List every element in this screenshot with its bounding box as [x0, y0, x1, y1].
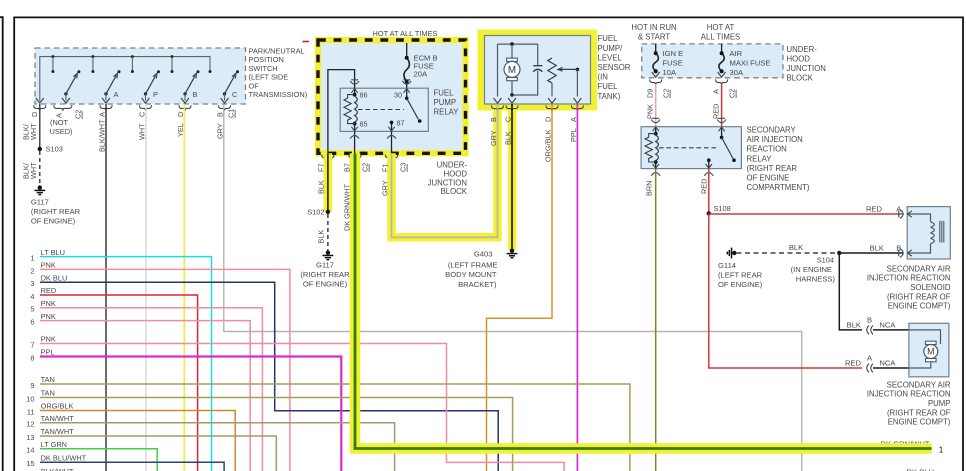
svg-text:FUEL: FUEL [598, 82, 619, 91]
svg-text:AIR: AIR [730, 49, 743, 58]
svg-text:86: 86 [360, 91, 368, 100]
fuel pump relay box [340, 88, 428, 131]
svg-text:UNDER-: UNDER- [787, 45, 818, 54]
svg-text:10A: 10A [663, 68, 677, 77]
wire BLK C to G403 [511, 104, 513, 251]
svg-text:SECONDARY AIR: SECONDARY AIR [887, 380, 951, 389]
fuel pump motor [511, 44, 513, 59]
svg-text:9: 9 [30, 381, 34, 390]
svg-text:TAN: TAN [41, 375, 55, 384]
svg-text:BRN: BRN [645, 181, 654, 196]
pump motor [909, 330, 941, 344]
svg-text:SECONDARY: SECONDARY [747, 126, 797, 135]
wire GRY F1 loop [392, 112, 498, 237]
svg-text:LEVEL: LEVEL [598, 53, 623, 62]
svg-text:D: D [544, 117, 553, 122]
wire 12 TAN/WHT [40, 423, 395, 471]
svg-text:HARNESS): HARNESS) [796, 275, 836, 284]
svg-text:SENSOR: SENSOR [598, 63, 631, 72]
wire DK GRN/WHT relay 85 to connector 1 [355, 153, 932, 448]
svg-text:A: A [114, 90, 119, 99]
wire 8 PPL [40, 357, 341, 471]
svg-text:ENGINE COMPT): ENGINE COMPT) [888, 418, 951, 427]
svg-text:G117: G117 [31, 198, 49, 207]
relay coil 86/85 [353, 93, 357, 97]
svg-text:1: 1 [939, 444, 944, 454]
small red tick [303, 41, 310, 43]
svg-text:UNDER-: UNDER- [437, 161, 468, 170]
pnp fixed contact x=92.9 [91, 55, 94, 58]
wire BLK dashed G114 to S104 [737, 252, 840, 254]
svg-text:RED: RED [845, 359, 862, 368]
svg-text:RED: RED [41, 286, 57, 295]
pnp fixed contact x=172.0 [171, 55, 174, 58]
svg-text:WHT: WHT [138, 123, 147, 140]
pnp switch arm 5 [223, 92, 226, 95]
capacitor [537, 44, 539, 65]
wire 11 ORG/BLK [40, 411, 235, 471]
svg-text:HOOD: HOOD [787, 54, 811, 63]
svg-text:LT GRN: LT GRN [41, 440, 67, 449]
wire 13 TAN/WHT [40, 436, 276, 471]
svg-text:A: A [98, 112, 107, 117]
yellow highlight F1 GRY loop [392, 107, 498, 237]
wire ORG/BLK D [487, 104, 553, 471]
svg-text:(RIGHT REAR OF: (RIGHT REAR OF [887, 292, 951, 301]
svg-text:M: M [508, 65, 516, 76]
pnp terminal D arrow [36, 98, 44, 103]
pnp switch arm 4 [183, 92, 186, 95]
air relay coil [655, 127, 657, 134]
svg-text:YEL: YEL [176, 123, 185, 137]
yellow highlight DK GRN/WHT path [355, 153, 932, 448]
svg-text:87: 87 [397, 118, 405, 127]
svg-text:(RIGHT REAR: (RIGHT REAR [300, 270, 350, 279]
ground G117 left [38, 185, 42, 189]
underhood junction block hazard box [318, 40, 466, 153]
svg-text:(IN ENGINE: (IN ENGINE [791, 265, 832, 274]
svg-text:30A: 30A [730, 68, 744, 77]
wire 1 LT BLU [40, 257, 212, 471]
AIR MAXI fuse 30A [721, 44, 723, 53]
wire 10 TAN [40, 398, 513, 471]
svg-text:C1: C1 [227, 109, 236, 118]
svg-text:G114: G114 [718, 261, 736, 270]
wire BLK S104 to solenoid B [839, 252, 903, 254]
svg-text:(IN: (IN [598, 73, 608, 82]
secondary air injection reaction relay box [641, 127, 741, 169]
svg-text:SECONDARY AIR: SECONDARY AIR [887, 264, 951, 273]
svg-text:POSITION: POSITION [249, 55, 284, 64]
yellow highlight fuel pump BLK to G403 [508, 107, 517, 250]
svg-text:D: D [176, 112, 185, 117]
secondary air injection reaction pump box [909, 323, 949, 377]
svg-text:D: D [30, 112, 39, 117]
svg-text:B: B [193, 90, 198, 99]
svg-text:HOOD: HOOD [444, 170, 468, 179]
svg-text:85: 85 [360, 120, 368, 129]
svg-text:GRY: GRY [215, 123, 224, 139]
svg-text:1: 1 [30, 254, 34, 263]
svg-text:C: C [232, 90, 238, 99]
yellow highlight F7 BLK [324, 153, 333, 212]
svg-text:SWITCH: SWITCH [249, 64, 278, 73]
underhood junction block fuse box [642, 44, 783, 78]
svg-text:B: B [489, 117, 498, 122]
wire GRY terminal B [224, 104, 802, 471]
svg-text:S102: S102 [307, 207, 324, 216]
svg-text:IGN E: IGN E [663, 49, 684, 58]
svg-text:SOLENOID: SOLENOID [910, 283, 951, 292]
svg-text:INJECTION REACTION: INJECTION REACTION [867, 274, 951, 283]
svg-text:BLOCK: BLOCK [441, 187, 468, 196]
wire PPL A [576, 104, 578, 471]
svg-text:S103: S103 [46, 145, 63, 154]
svg-text:PUMP/: PUMP/ [598, 44, 624, 53]
svg-text:G403: G403 [474, 249, 493, 258]
svg-text:NCA: NCA [879, 320, 896, 329]
svg-text:S108: S108 [714, 204, 731, 213]
svg-text:PUMP: PUMP [434, 98, 457, 107]
sender wiper [576, 68, 580, 72]
svg-text:11: 11 [27, 407, 35, 416]
svg-text:OF ENGINE): OF ENGINE) [303, 279, 348, 288]
solenoid coil [909, 214, 931, 222]
wire 7 PNK [40, 344, 564, 471]
wire 4 RED [40, 295, 198, 471]
svg-text:RELAY: RELAY [747, 154, 773, 163]
svg-text:GRY: GRY [489, 130, 498, 146]
wire RED S108 down to pump A [709, 214, 862, 369]
svg-text:8: 8 [30, 353, 34, 362]
svg-text:15: 15 [26, 459, 34, 468]
level sender variable resistor [548, 58, 556, 83]
wire BLK dashed S102 to G117 [327, 214, 329, 253]
wire 3 DK BLU [40, 282, 498, 471]
svg-text:ALL TIMES: ALL TIMES [701, 32, 740, 41]
svg-text:PNK: PNK [41, 261, 56, 270]
svg-text:TRANSMISSION): TRANSMISSION) [249, 90, 308, 99]
wire GRY B up from loop [497, 104, 499, 112]
svg-text:BLK/WHT: BLK/WHT [98, 119, 107, 152]
svg-text:BLK: BLK [870, 243, 884, 252]
svg-text:FUEL: FUEL [598, 34, 619, 43]
ECM B fuse 20A [406, 43, 408, 58]
svg-text:HOT AT: HOT AT [707, 23, 735, 32]
wire 5 PNK [40, 308, 262, 471]
pnp switch arm 2 [104, 92, 107, 95]
svg-text:TAN/WHT: TAN/WHT [41, 427, 75, 436]
hazard box exits [322, 155, 334, 161]
wire 15 DK BLU/WHT [40, 462, 224, 471]
svg-text:M: M [927, 346, 934, 356]
secondary air injection reaction solenoid box [907, 207, 950, 259]
svg-text:BLK: BLK [847, 320, 861, 329]
ground G403 [510, 249, 514, 253]
svg-text:(LEFT FRAME: (LEFT FRAME [448, 261, 498, 270]
svg-text:3: 3 [30, 279, 34, 288]
svg-text:WHT: WHT [29, 123, 38, 140]
wire WHT terminal C [145, 104, 147, 471]
fuse box braces [650, 79, 662, 85]
svg-text:BODY MOUNT: BODY MOUNT [445, 270, 497, 279]
wire PNK fuse to relay [655, 84, 657, 127]
svg-text:BLK: BLK [789, 243, 803, 252]
svg-text:JUNCTION: JUNCTION [428, 178, 467, 187]
page edge sliver [0, 17, 3, 471]
svg-text:FUEL: FUEL [434, 89, 455, 98]
svg-text:HOT AT ALL TIMES: HOT AT ALL TIMES [373, 29, 438, 38]
svg-text:BLK: BLK [317, 230, 326, 244]
svg-text:10: 10 [26, 394, 34, 403]
svg-text:DK BLU: DK BLU [907, 467, 934, 471]
svg-text:(RIGHT REAR: (RIGHT REAR [747, 164, 798, 173]
svg-text:TAN: TAN [41, 389, 55, 398]
svg-text:DK BLU: DK BLU [41, 273, 68, 282]
pnp fixed contact x=132.4 [131, 55, 134, 58]
park/neutral position switch box [35, 48, 246, 104]
air relay pin crossings [652, 117, 659, 119]
NCA connector A [867, 364, 873, 373]
svg-text:OF: OF [249, 81, 260, 90]
svg-text:(LEFT REAR: (LEFT REAR [718, 271, 763, 280]
wire 9 TAN [40, 384, 630, 471]
svg-text:13: 13 [26, 433, 34, 442]
pnp fixed contact x=52.9 [51, 55, 54, 58]
svg-text:4: 4 [30, 292, 34, 301]
svg-text:P: P [153, 90, 158, 99]
svg-text:DK BLU/WHT: DK BLU/WHT [41, 454, 87, 463]
svg-text:MAXI FUSE: MAXI FUSE [730, 59, 771, 68]
svg-text:C2: C2 [74, 110, 83, 119]
svg-text:14: 14 [26, 446, 34, 455]
svg-text:PNK: PNK [41, 335, 56, 344]
relay pin crossings [351, 79, 358, 81]
svg-text:PARK/NEUTRAL: PARK/NEUTRAL [249, 47, 305, 56]
wire RED S108 to solenoid A [709, 213, 904, 215]
relay internal wires [328, 70, 355, 154]
fuel pump internal rail [498, 43, 538, 45]
air relay dashed link [659, 147, 716, 149]
svg-text:BLOCK: BLOCK [787, 74, 814, 83]
svg-text:OF ENGINE): OF ENGINE) [718, 280, 763, 289]
svg-text:G117: G117 [316, 260, 334, 269]
fuel pump bottom arrows + braces [494, 98, 502, 103]
svg-text:12: 12 [26, 420, 34, 429]
svg-text:PNK: PNK [41, 299, 56, 308]
svg-text:C2: C2 [361, 163, 370, 172]
svg-text:6: 6 [30, 318, 34, 327]
wire RED fuse to relay [721, 84, 723, 127]
wire BLK/WHT terminal D with S103 [39, 104, 41, 149]
svg-text:B: B [867, 315, 872, 324]
wire 2 PNK [40, 269, 290, 471]
wire BRN [655, 169, 657, 471]
svg-text:USED): USED) [50, 127, 73, 136]
ground G114 [732, 251, 736, 255]
svg-text:WHT: WHT [29, 162, 38, 179]
pnp connector braces [34, 105, 46, 111]
svg-text:C3: C3 [399, 163, 408, 172]
IGN E fuse 10A [655, 44, 657, 53]
relay dashed link [358, 109, 404, 111]
svg-text:RED: RED [712, 104, 721, 119]
svg-text:FUSE: FUSE [663, 59, 683, 68]
svg-text:NCA: NCA [879, 359, 896, 368]
svg-text:HOT IN RUN: HOT IN RUN [631, 23, 676, 32]
wire 14 LT GRN [40, 449, 157, 471]
svg-text:PNK: PNK [41, 312, 56, 321]
svg-text:PNK: PNK [646, 104, 655, 119]
svg-text:BLK/WHT: BLK/WHT [41, 467, 74, 471]
svg-text:AIR INJECTION: AIR INJECTION [747, 135, 803, 144]
svg-text:OF ENGINE: OF ENGINE [747, 173, 790, 182]
svg-text:COMPARTMENT): COMPARTMENT) [747, 183, 810, 192]
wire BLK F7 to S102 [327, 153, 329, 212]
svg-text:RED: RED [699, 179, 708, 194]
pnp switch arm 1 [64, 92, 67, 95]
svg-text:2: 2 [30, 266, 34, 275]
svg-text:RED: RED [866, 204, 883, 213]
fuel pump level sensor box highlighted [478, 30, 598, 111]
pnp top rail wire [40, 57, 210, 101]
svg-text:PUMP: PUMP [928, 399, 951, 408]
svg-text:ORG/BLK: ORG/BLK [544, 129, 553, 162]
wire YEL terminal D [183, 104, 185, 471]
svg-text:(LEFT SIDE: (LEFT SIDE [249, 73, 289, 82]
svg-text:5: 5 [30, 305, 34, 314]
svg-text:RELAY: RELAY [434, 108, 460, 117]
svg-text:20A: 20A [414, 70, 428, 79]
svg-text:C2: C2 [662, 89, 671, 98]
svg-text:INJECTION REACTION: INJECTION REACTION [867, 390, 951, 399]
svg-text:& START: & START [638, 32, 670, 41]
wire 6 PNK [40, 321, 250, 471]
svg-text:JUNCTION: JUNCTION [787, 64, 826, 73]
NCA connector B [867, 326, 873, 335]
svg-text:ENGINE COMPT): ENGINE COMPT) [888, 302, 951, 311]
svg-text:BRACKET): BRACKET) [458, 280, 497, 289]
svg-text:D9: D9 [646, 89, 655, 98]
svg-text:PPL: PPL [41, 348, 55, 357]
svg-text:S104: S104 [817, 256, 834, 265]
ground G117 right rear [326, 251, 330, 255]
svg-text:7: 7 [30, 340, 34, 349]
svg-text:A: A [712, 89, 721, 94]
svg-text:B: B [215, 112, 224, 117]
wire BLK/WHT terminal A [105, 104, 107, 471]
svg-text:ORG/BLK: ORG/BLK [41, 402, 74, 411]
svg-text:30: 30 [394, 91, 402, 100]
svg-text:TAN/WHT: TAN/WHT [41, 414, 75, 423]
svg-text:C: C [138, 112, 147, 117]
svg-text:OF ENGINE): OF ENGINE) [31, 217, 76, 226]
svg-text:REACTION: REACTION [747, 145, 787, 154]
wire BLK S104 down to pump B [839, 253, 862, 330]
svg-text:(NOT: (NOT [50, 118, 69, 127]
svg-text:(RIGHT REAR OF: (RIGHT REAR OF [887, 408, 951, 417]
wire RED to S108 [708, 169, 710, 214]
pnp switch arm 3 [144, 92, 147, 95]
svg-text:C2: C2 [728, 89, 737, 98]
svg-text:LT BLU: LT BLU [41, 248, 65, 257]
air relay switch [721, 127, 723, 138]
svg-text:TANK): TANK) [598, 92, 621, 101]
svg-text:(RIGHT REAR: (RIGHT REAR [31, 207, 81, 216]
